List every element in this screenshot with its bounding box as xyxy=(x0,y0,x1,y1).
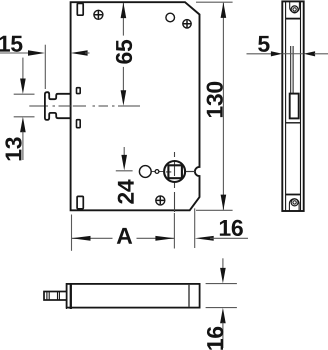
faceplate latch opening xyxy=(290,94,299,119)
slot bottom-left xyxy=(77,196,83,208)
dimension 130 line xyxy=(222,3,224,210)
dimension 130 extension top xyxy=(196,1,233,3)
dimension 130 up arrow xyxy=(221,2,227,18)
bottom view knob ribs xyxy=(47,292,60,300)
faceplate bottom screw pocket xyxy=(289,199,299,211)
slot mid upper xyxy=(77,88,81,94)
dimension 130 extension bottom xyxy=(196,209,233,211)
dimension 16 text xyxy=(220,220,243,236)
spindle follower circle xyxy=(164,161,185,182)
dimension 65 down arrow xyxy=(121,90,127,106)
bottom view dimension 16 up arrow xyxy=(220,308,226,324)
dimension A right arrow xyxy=(155,236,174,241)
faceplate inner guide lines xyxy=(290,46,292,94)
dimension 15 arrow left-pointing at plate edge xyxy=(71,50,88,55)
dimension 16 extension line xyxy=(194,208,196,248)
faceplate front view outline xyxy=(282,1,303,211)
dimension 5 crossing line xyxy=(282,53,303,55)
dimension 13 tick lower xyxy=(14,116,35,118)
faceplate top screw pocket xyxy=(290,2,300,12)
bottom view inner line near right end xyxy=(188,285,190,307)
screw hole top-right xyxy=(183,20,191,28)
faceplate inner edge lines xyxy=(285,1,287,211)
bottom view dimension 16 extension bottom xyxy=(206,307,237,309)
dimension 24 tick xyxy=(116,170,133,172)
bottom view dimension 16 down arrow xyxy=(222,258,224,268)
spindle square xyxy=(168,165,182,178)
dimension 24 text xyxy=(118,179,134,203)
slot mid lower xyxy=(77,120,81,128)
bottom view dimension 16 text xyxy=(207,327,223,350)
bottom view case outline xyxy=(67,284,200,308)
faceplate top screw hole xyxy=(291,6,298,13)
dimension 13 text xyxy=(5,137,21,160)
spindle vertical centerline xyxy=(174,152,176,212)
hole plain top-right xyxy=(166,13,175,22)
extension line knob cap xyxy=(44,45,46,89)
dimension 13 down arrow xyxy=(22,58,24,79)
dimension 130 down arrow xyxy=(221,195,227,211)
dimension 65 up arrow xyxy=(121,3,127,19)
bottom view latch knob xyxy=(44,292,67,301)
dimension 5 text xyxy=(258,36,269,52)
faceplate bottom screw hole xyxy=(291,199,298,206)
screw hole top-left xyxy=(94,10,103,19)
dimension 13 tick upper xyxy=(14,93,35,95)
dimension A extension right (spindle axis) xyxy=(173,213,175,249)
dimension 65 text xyxy=(116,40,132,64)
faceplate line below latch xyxy=(286,122,301,124)
bottom view faceplate bar left edge xyxy=(66,284,68,309)
spindle horizontal centerline segments xyxy=(151,171,171,173)
slot top-left xyxy=(77,3,83,15)
faceplate top separation line xyxy=(286,18,301,20)
dimension 15 text xyxy=(0,36,22,52)
dimension A left arrow xyxy=(72,236,91,241)
dimension 24 arrow xyxy=(123,147,125,156)
tiny hole xyxy=(155,170,159,174)
dimension 15 arrow right-pointing xyxy=(28,50,45,55)
lock case plate outline xyxy=(71,2,200,210)
dimension 13 up arrow xyxy=(20,117,26,133)
bottom view dimension 16 extension top xyxy=(206,283,237,285)
faceplate bottom separation line xyxy=(286,194,301,196)
dimension 5 arrow left-pointing xyxy=(304,51,316,56)
bottom view faceplate bar thick edge xyxy=(70,284,72,309)
dimension 16 arrow xyxy=(195,236,214,241)
screw hole bottom xyxy=(156,196,165,205)
latch knob front profile xyxy=(45,92,71,120)
dimension 65 line xyxy=(122,3,124,36)
dimension 5 line xyxy=(247,53,273,55)
dimension A line xyxy=(72,237,113,239)
centerline knob axis xyxy=(29,105,140,107)
dimension A text xyxy=(117,228,132,244)
dimension 130 text xyxy=(207,82,223,117)
dimension 5 arrow right-pointing xyxy=(271,51,283,56)
dimension 15 line left xyxy=(0,52,30,54)
dimension A extension left xyxy=(71,215,73,251)
auxiliary hole left of follower xyxy=(139,166,151,178)
line from follower to faceplate notch xyxy=(186,171,196,173)
